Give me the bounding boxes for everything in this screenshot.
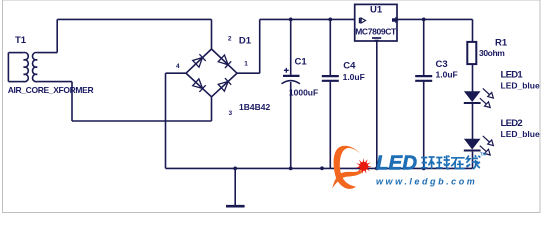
- transformer T1 primary winding: [24, 53, 29, 82]
- wire left drop to ground rail: [165, 73, 167, 168]
- char xian: [466, 155, 480, 169]
- junction bottom U1: [375, 167, 379, 171]
- wire U1 ground pin: [376, 41, 378, 168]
- char huan: [421, 157, 435, 169]
- char zai: [451, 158, 465, 170]
- wire bridge top drop: [211, 19, 213, 49]
- wire primary top lead: [8, 52, 23, 54]
- wire secondary top lead: [37, 52, 57, 54]
- capacitor C4 plates: [322, 76, 339, 81]
- wire right riser: [259, 19, 261, 73]
- LED1: [465, 92, 480, 102]
- char qiu: [436, 155, 450, 169]
- wire bridge right lead: [237, 72, 260, 74]
- resistor R1: [467, 42, 476, 64]
- wire C3 bottom lead: [423, 82, 425, 169]
- LED2: [465, 139, 480, 149]
- junction ground tap: [233, 167, 237, 171]
- wire LED2 to ground rail: [472, 152, 474, 169]
- junction top C1: [289, 18, 293, 22]
- wire primary left vertical: [7, 53, 9, 82]
- wire R1 top lead: [472, 19, 474, 41]
- junction top C3: [422, 18, 426, 22]
- svg-text:TM: TM: [480, 152, 487, 157]
- wire LED1 to LED2: [472, 104, 474, 139]
- diode D1a top-left: [193, 54, 206, 67]
- wire top rail right (to U1): [260, 18, 355, 20]
- wire secondary return: [72, 120, 212, 122]
- junction bottom C1: [289, 167, 293, 171]
- label C1 plus: [284, 68, 289, 73]
- U1 input arrow: [359, 18, 361, 24]
- ground bar: [226, 205, 245, 208]
- wire primary bottom lead: [8, 81, 24, 83]
- wire C3 top lead: [423, 19, 425, 75]
- wire secondary bottom lead: [37, 81, 72, 83]
- wire bridge bottom riser: [211, 97, 213, 121]
- diode D1b top-right: [218, 55, 231, 68]
- svg-text:www.ledgb.com: www.ledgb.com: [376, 176, 477, 186]
- wire top rail right (after U1): [397, 18, 473, 20]
- wire bottom ground rail: [166, 167, 473, 169]
- wire secondary top riser: [56, 19, 58, 52]
- wire ground stem: [234, 168, 236, 205]
- bridge diamond D1: [186, 49, 237, 97]
- capacitor C1 plates: [283, 75, 300, 77]
- transformer T1 secondary winding: [33, 53, 38, 82]
- wire R1 to LED1: [472, 64, 474, 92]
- wire C1 bottom lead: [290, 82, 292, 168]
- U1 output arrow: [392, 17, 399, 24]
- logo chinese characters: [421, 155, 480, 169]
- logo orange swirl stroke B: [332, 168, 366, 189]
- logo orange swirl stroke A: [334, 146, 361, 189]
- diode D1c bottom-left: [193, 79, 206, 92]
- wire bridge left lead: [166, 72, 187, 74]
- junction bottom C3: [422, 167, 426, 171]
- junction bottom stray: [320, 166, 324, 170]
- capacitor C3 plates: [415, 76, 432, 81]
- wire C4 top lead: [329, 19, 331, 75]
- junction top C4: [328, 18, 332, 22]
- wire C1 top lead: [290, 19, 292, 75]
- voltage regulator U1 box: [355, 4, 397, 41]
- U1 gnd glyph: [372, 37, 381, 39]
- wire top rail left: [57, 18, 211, 20]
- wire C4 bottom lead: [329, 82, 331, 169]
- wire secondary bottom drop: [71, 82, 73, 121]
- svg-text:LED: LED: [376, 152, 417, 175]
- logo red starburst: [356, 158, 372, 174]
- diode D1d bottom-right: [218, 78, 231, 91]
